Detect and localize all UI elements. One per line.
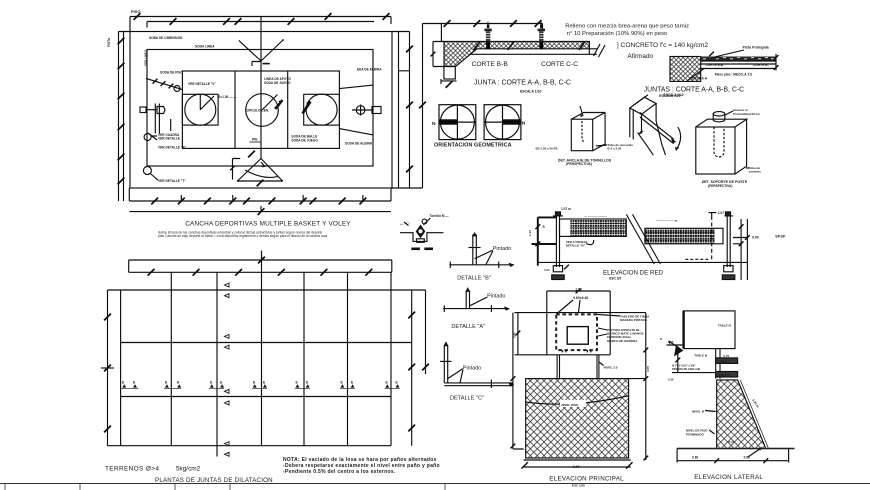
joint bolt: leader — [423, 218, 430, 225]
lateral: post — [716, 349, 720, 379]
svg-text:TERMINADO: TERMINADO — [686, 433, 705, 437]
post box: U slot dashed — [714, 127, 724, 157]
post box: body — [696, 127, 735, 174]
red: break diagonals — [626, 214, 660, 264]
court plan: right dim verticals — [392, 24, 423, 189]
svg-text:plan Cancha de bajo deporte al: plan Cancha de bajo deporte al metal = z… — [158, 234, 328, 238]
principal: baseline — [524, 459, 631, 461]
svg-text:VER DETALLE "V": VER DETALLE "V" — [188, 82, 216, 86]
svg-text:DETALLE "B": DETALLE "B" — [457, 275, 491, 281]
lateral: texts — [660, 324, 760, 460]
principal: annotation leaders — [597, 314, 620, 336]
principal: left dim — [514, 313, 546, 355]
court plan: bottom dimension line 2 (overall) — [129, 206, 391, 212]
detalle B: base line — [449, 264, 513, 266]
juntas: protected layer band — [701, 57, 776, 62]
channel: whip curve — [638, 133, 654, 156]
svg-text:Ø2 1.50 x 50 PE: Ø2 1.50 x 50 PE — [536, 147, 558, 151]
corte: slab ticks — [474, 42, 585, 51]
svg-text:CANCHA DEPORTIVAS MULTIPLE BAS: CANCHA DEPORTIVAS MULTIPLE BASKET Y VOLE… — [185, 220, 351, 227]
corte: foundation dim — [441, 79, 457, 84]
svg-text:Profundidad 50 cm: Profundidad 50 cm — [733, 112, 760, 116]
grid: columns — [120, 290, 122, 446]
svg-text:n° 10 Preparación (10% 90%) en: n° 10 Preparación (10% 90%) en peso — [567, 31, 668, 37]
principal: right dim — [629, 313, 646, 460]
svg-text:1.10: 1.10 — [528, 230, 532, 236]
principal: texts — [513, 287, 651, 469]
svg-text:ESCALA 1/10: ESCALA 1/10 — [664, 93, 684, 97]
court plan: bottom dimension line 1 — [129, 188, 391, 201]
svg-text:NIVEL Ø: NIVEL Ø — [692, 409, 705, 413]
principal: bottom dim — [524, 466, 631, 468]
court plan: center circle — [246, 94, 279, 127]
court plan: top dim ticks — [134, 13, 141, 20]
court plan: playing field rect C — [182, 71, 339, 148]
corte: bolt 2 — [538, 29, 545, 32]
red: net band left — [560, 219, 627, 236]
juntas: diagonal edge — [687, 69, 704, 82]
svg-text:Pintado: Pintado — [463, 366, 481, 372]
corte: slab hatched layer — [444, 42, 589, 67]
channel: curved arrow — [676, 127, 681, 151]
channel: top beam — [630, 97, 656, 114]
court plan: left post guide lines — [155, 104, 159, 134]
lateral: intermediate dim — [667, 345, 716, 373]
red: left post base — [553, 266, 562, 272]
svg-text:VER DETALLE "T": VER DETALLE "T" — [158, 179, 186, 183]
principal: board top edge extended — [514, 312, 645, 314]
court plan: net V symbol — [239, 40, 283, 61]
principal: wall hatched — [526, 379, 629, 458]
svg-text:0.90: 0.90 — [752, 236, 759, 240]
svg-text:NIVEL 2.9: NIVEL 2.9 — [604, 365, 618, 369]
court plan: left basket symbol — [140, 107, 146, 113]
channel: insertion arrow — [639, 131, 643, 134]
svg-text:0.60x0.45: 0.60x0.45 — [573, 296, 588, 300]
lateral: ground line — [677, 448, 794, 450]
lateral: backboard side — [684, 311, 735, 349]
grid: section cut marks (column 3) — [225, 283, 230, 456]
corte: afirmado layer — [469, 42, 597, 55]
joint bolt: base dashes — [411, 248, 420, 251]
juntas: hatched block — [670, 57, 701, 82]
svg-text:0.70: 0.70 — [723, 354, 729, 358]
svg-text:ESCALA 1/10: ESCALA 1/10 — [520, 90, 541, 94]
svg-text:ELEVACION LATERAL: ELEVACION LATERAL — [694, 474, 763, 481]
court plan: outer platform rect A — [130, 32, 392, 189]
elevacion de red — [532, 212, 750, 280]
svg-text:N: N — [522, 121, 526, 127]
elevacion principal — [511, 289, 649, 469]
detalle B — [449, 232, 514, 268]
court plan: rect B bottom center triangle detail — [238, 159, 283, 182]
svg-text:PIE: PIE — [252, 138, 258, 142]
svg-text:DETALLE "B": DETALLE "B" — [566, 244, 586, 248]
svg-text:3.05: 3.05 — [646, 366, 650, 372]
detalle B: leaders — [475, 250, 493, 265]
lateral: hatched base — [717, 380, 766, 449]
svg-text:CORTE B-: CORTE B- — [753, 63, 768, 67]
court plan: left circle radius lines — [200, 94, 214, 109]
red: right post — [725, 216, 734, 267]
court plan: left diagonal annotation — [146, 78, 182, 89]
court plan: left dim verticals — [119, 32, 131, 202]
red: labels — [528, 207, 786, 272]
channel: left legs — [630, 104, 656, 140]
corte: bolt 2 riser — [540, 22, 542, 29]
svg-text:Pintado: Pintado — [493, 246, 511, 252]
lateral: braces — [716, 358, 738, 364]
grid: right dim verticals — [412, 290, 426, 446]
red: left post — [553, 216, 563, 267]
svg-text:SODA DE PISO: SODA DE PISO — [160, 71, 183, 75]
svg-text:PLANTAS DE JUNTAS DE DILAT: PLANTAS DE JUNTAS DE DILATACION — [155, 477, 273, 484]
lateral: label leaders — [705, 411, 716, 435]
court plan: center line — [260, 28, 262, 159]
elevacion lateral — [667, 311, 795, 463]
svg-text:CORTE B-B: CORTE B-B — [472, 61, 509, 68]
post box: leaders — [725, 111, 733, 115]
svg-text:R=1.80 — —: R=1.80 — — — [218, 95, 237, 99]
svg-text:ADA DE ALBINA: ADA DE ALBINA — [357, 68, 383, 72]
detalle C: L shape — [444, 346, 513, 386]
svg-text:— " ' ": — " ' " — [400, 222, 410, 226]
svg-text:0.30: 0.30 — [668, 378, 674, 382]
court plan: right circle — [306, 94, 337, 125]
grid: top dim line — [129, 255, 392, 272]
court plan: right key rect — [304, 94, 340, 125]
corte: top dim line — [423, 24, 543, 42]
svg-text:JUNTA : CORTE A-A, B-B, C-: JUNTA : CORTE A-A, B-B, C-C — [474, 80, 571, 87]
juntas detail (right) — [670, 50, 778, 81]
detalle C — [440, 341, 514, 388]
svg-text:3.00: 3.00 — [573, 465, 580, 469]
detalle A — [443, 287, 510, 312]
svg-text:TABLE Ø: TABLE Ø — [694, 354, 708, 358]
svg-text:JUNTAS : CORTE A-A, B-B, C: JUNTAS : CORTE A-A, B-B, C-C — [644, 87, 744, 94]
svg-text:TERRENOS Ø>4: TERRENOS Ø>4 — [105, 466, 159, 473]
court plan: left detail circle 2 — [143, 167, 151, 175]
corte: left thickness dim — [433, 42, 444, 67]
svg-text:Pista Protegida: Pista Protegida — [743, 46, 770, 50]
red: ground line — [538, 261, 748, 263]
corte: relleno note text — [565, 24, 708, 61]
svg-text:PISO: PISO — [131, 9, 141, 14]
svg-text:1.07 m: 1.07 m — [561, 207, 571, 211]
svg-text:ESC 1/5: ESC 1/5 — [609, 276, 621, 280]
anchor block: box — [571, 119, 592, 151]
svg-text:Tornillo M —: Tornillo M — — [430, 214, 450, 218]
svg-text:N: N — [432, 121, 436, 127]
svg-text:TABLE Ø: TABLE Ø — [718, 373, 731, 377]
red: dashed base segment — [685, 258, 710, 260]
svg-text:DETALLE "A": DETALLE "A" — [451, 324, 485, 330]
joint bolt: ground line with notch — [400, 233, 443, 242]
grid: nota text — [283, 457, 440, 475]
svg-text:SODA LINEA: SODA LINEA — [195, 45, 215, 49]
corte B-B / C-C section — [423, 20, 606, 88]
detalle B: stem — [473, 235, 477, 265]
svg-text:(PERSPECTIVA): (PERSPECTIVA) — [708, 184, 732, 188]
court plan: top dimension line H2 — [147, 17, 374, 28]
grid: left dim vertical — [107, 290, 109, 446]
svg-text:Pintado: Pintado — [487, 294, 505, 300]
court plan: top dimension line H1 — [130, 17, 391, 32]
svg-text:cemento: cemento — [749, 170, 762, 174]
svg-text:SODA DE JUEGO: SODA DE JUEGO — [264, 81, 291, 85]
channel: right leg — [656, 121, 665, 155]
svg-text:Ø 2 x 2.50: Ø 2 x 2.50 — [607, 146, 621, 150]
svg-text:SODA DE JUEGO: SODA DE JUEGO — [291, 138, 318, 142]
principal: nivel label on wall — [560, 400, 586, 407]
svg-text:CORTE A-A: CORTE A-A — [690, 76, 708, 80]
red: net band right — [645, 228, 723, 244]
post box: cylinder on top — [713, 112, 725, 116]
svg-text:1.80: 1.80 — [575, 287, 582, 291]
orientacion geometrica — [439, 105, 521, 140]
svg-text:PISTA: PISTA — [107, 37, 111, 47]
svg-text:0.10: 0.10 — [729, 440, 735, 444]
court plan: net post flag — [252, 62, 261, 67]
svg-text:(PERSPECTIVA): (PERSPECTIVA) — [566, 162, 592, 166]
title block top frame line — [0, 483, 870, 485]
iso detail: post support box — [696, 111, 749, 174]
corte: bolt 1 — [484, 29, 491, 32]
principal: backboard frame dashed — [556, 314, 597, 350]
lateral: bottom dim — [677, 449, 789, 463]
juntas: leader to pista protegida — [708, 50, 744, 59]
anchor block: leader right — [596, 145, 607, 146]
principal: sag curve — [526, 396, 629, 404]
svg-text:— ——— ———: — ——— ——— — [584, 214, 607, 218]
principal: board bottom edge — [547, 354, 610, 356]
court plan: right perspective lines to backboard — [339, 85, 373, 135]
svg-text:-Pendiente 0.5% del centro a l: -Pendiente 0.5% del centro a los externo… — [283, 469, 396, 475]
detalle A: leader — [470, 297, 487, 306]
svg-text:PERNOS DE ANCLAJE: PERNOS DE ANCLAJE — [672, 367, 700, 371]
red: label leader — [586, 240, 594, 245]
svg-text:VER DETALLE: VER DETALLE — [158, 137, 180, 141]
court plan: center circle annotation line — [262, 95, 278, 111]
grid: joint marker row — [122, 380, 400, 387]
svg-text:Ø 5"x1"x1/2" x 3/8": Ø 5"x1"x1/2" x 3/8" — [672, 364, 696, 368]
svg-text:5kg/cm2: 5kg/cm2 — [176, 466, 201, 473]
corte: bolt 1 riser — [487, 22, 489, 29]
principal: left overall dim — [513, 313, 524, 449]
svg-text:P: P — [660, 337, 662, 341]
svg-text:0.15: 0.15 — [668, 340, 674, 344]
svg-text:1.01: 1.01 — [544, 268, 550, 272]
iso detail: anchor block — [571, 106, 607, 151]
svg-text:SODA DE ALBINA: SODA DE ALBINA — [345, 142, 373, 146]
juntas: slab layer lines — [701, 61, 776, 68]
grid: rows — [108, 289, 426, 291]
court plan: field division lines — [235, 71, 288, 148]
orientacion: square 2 — [484, 105, 521, 140]
principal: board side edges — [547, 291, 610, 355]
principal: inner square — [567, 327, 588, 345]
red: right dim verticals — [733, 219, 747, 280]
svg-text:ESC 1/20: ESC 1/20 — [572, 484, 585, 488]
svg-text:—————— m: —————— m — [656, 219, 678, 223]
anchor block: embedded bolt dashed — [582, 121, 585, 141]
svg-text:SOBA DE CIMENSION: SOBA DE CIMENSION — [149, 36, 183, 40]
svg-text:ORIENTACION GEOMETRICA: ORIENTACION GEOMETRICA — [434, 143, 512, 149]
red: left dim vertical — [532, 217, 557, 265]
iso detail: channel guide — [630, 95, 681, 155]
mini detail: joint bolt — [400, 218, 443, 250]
svg-text:] CONCRETO f'c = 140 kg/cm2: ] CONCRETO f'c = 140 kg/cm2 — [617, 42, 708, 49]
lateral: anchor detail — [674, 345, 683, 357]
court plan: right basket symbol — [356, 106, 365, 115]
svg-text:0.60: 0.60 — [692, 456, 698, 460]
channel: diagonal plank — [640, 113, 674, 144]
svg-text:Relleno con mezcla brea-arena: Relleno con mezcla brea-arena que peso t… — [565, 24, 689, 30]
court plan: left key rect — [182, 94, 218, 125]
detalle A: stem — [466, 291, 469, 308]
svg-text:1.07 m: 1.07 m — [718, 211, 728, 215]
juntas: labels — [690, 46, 770, 81]
svg-text:CORTE B-B: CORTE B-B — [706, 63, 724, 67]
grid plan (plantas de juntas) — [101, 251, 429, 457]
grid: top edge — [129, 271, 392, 273]
svg-text:VER DETALLE "B": VER DETALLE "B" — [158, 146, 187, 150]
joint bolt: bolt diamond — [416, 225, 426, 239]
detalle A: base line — [443, 308, 509, 310]
principal: top dim — [547, 290, 610, 292]
principal: posts — [557, 355, 599, 379]
court plan: right circle bold arrow — [303, 102, 311, 114]
svg-text:MARCO DE MADERA: MARCO DE MADERA — [607, 339, 638, 343]
svg-text:0.90: 0.90 — [744, 456, 750, 460]
principal: label bracket — [557, 300, 581, 314]
red: dashed net-end vertical — [711, 216, 713, 259]
corte: right end ticks — [594, 44, 606, 57]
orientacion: square 1 — [439, 105, 476, 140]
court plan: left circle — [185, 94, 216, 125]
svg-text:CIRCULO CEN.: CIRCULO CEN. — [246, 109, 269, 113]
red: right post base — [724, 266, 733, 272]
svg-text:TABLE Ø: TABLE Ø — [718, 360, 731, 364]
svg-text:TABLE Ø: TABLE Ø — [718, 324, 732, 328]
svg-text:NIVEL PISO: NIVEL PISO — [562, 403, 579, 407]
svg-text:Falso piso - MEZCLA 1:8: Falso piso - MEZCLA 1:8 — [715, 72, 752, 76]
corte: foundation square — [444, 67, 455, 80]
principal: frame bolts — [563, 350, 591, 352]
svg-text:ELEVACION PRINCIPAL: ELEVACION PRINCIPAL — [549, 476, 624, 483]
court plan: caption notes — [158, 230, 328, 238]
svg-text:CORTE C-C: CORTE C-C — [541, 61, 578, 68]
svg-text:0.60: 0.60 — [513, 332, 517, 338]
svg-text:MADERA PINTADA: MADERA PINTADA — [620, 318, 648, 322]
juntas: right dim edge — [775, 54, 777, 71]
svg-text:DETALLE "C": DETALLE "C" — [450, 396, 484, 402]
court plan: small annotation texts — [107, 9, 382, 183]
svg-text:Afirmado: Afirmado — [628, 53, 654, 60]
anchor block: top arrow — [580, 106, 583, 116]
corte: bolt labels — [487, 25, 490, 28]
svg-text:SP.SP: SP.SP — [775, 235, 786, 239]
court plan: left detail circle 1 — [144, 134, 151, 141]
court plan: court boundary rect B — [147, 50, 373, 167]
detalle C: leaders — [448, 369, 463, 383]
grid: joint marker base lines — [122, 387, 400, 389]
svg-text:VER LINEA: VER LINEA — [144, 49, 148, 66]
